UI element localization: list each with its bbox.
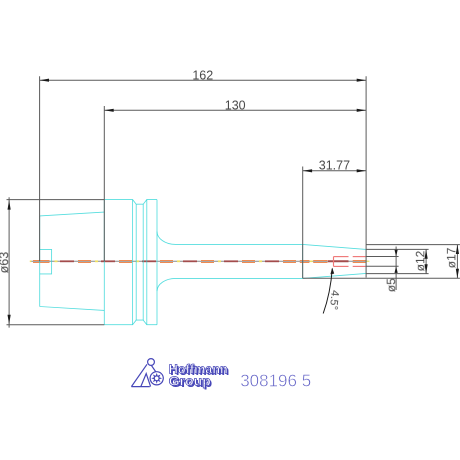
centerline yellow dash xyxy=(310,260,313,262)
centerline base xyxy=(30,260,368,262)
dimension 31.77 text xyxy=(319,158,350,172)
svg-text:ø12: ø12 xyxy=(413,250,427,271)
centerline orange double segment 3 xyxy=(313,261,327,263)
hidden bore bottom line xyxy=(334,265,366,267)
centerline orange double segment 4 xyxy=(353,261,366,263)
angle 4.5 deg text xyxy=(327,289,341,310)
part shaft bottom edge xyxy=(176,277,303,279)
part groove edge line right xyxy=(142,204,144,320)
part groove rim edge left xyxy=(132,200,134,325)
logo text Group xyxy=(169,373,211,388)
logo text Group shadow xyxy=(170,375,212,390)
part flange left face xyxy=(103,200,105,325)
dimension 130 text xyxy=(225,99,246,113)
logo text Hoffmann xyxy=(169,361,228,376)
diameter 63 extension lines xyxy=(7,200,105,325)
svg-text:31.77: 31.77 xyxy=(319,158,350,172)
part flange right face xyxy=(156,200,158,325)
logo gear hub xyxy=(155,377,159,381)
svg-text:ø17: ø17 xyxy=(444,247,458,268)
part flange top edge with groove xyxy=(104,200,157,205)
part cone top edge xyxy=(303,244,367,249)
svg-text:308196 5: 308196 5 xyxy=(240,370,311,390)
dimension 162 text xyxy=(192,68,213,82)
extension line d17 bottom xyxy=(303,277,460,279)
extension line flange face xyxy=(103,106,105,261)
diameter 17 text xyxy=(444,247,458,268)
centerline maroon dash xyxy=(328,260,349,262)
svg-text:162: 162 xyxy=(192,68,213,82)
angle leader 4.5 deg xyxy=(323,268,334,314)
centerline yellow end dash xyxy=(366,260,369,262)
hidden bore end line xyxy=(333,257,335,267)
diameter 17 dimension line xyxy=(456,245,459,279)
diameter 5 text xyxy=(384,278,398,292)
part HSK taper top edge xyxy=(40,212,105,216)
extension line d12 top xyxy=(366,248,429,250)
svg-text:ø63: ø63 xyxy=(0,252,11,274)
part flange bottom edge with groove xyxy=(104,320,157,325)
extension line tip face xyxy=(365,76,367,277)
part HSK taper bottom edge xyxy=(40,307,105,311)
extension line d12 bottom xyxy=(366,273,429,275)
part fillet bottom xyxy=(157,278,176,291)
diameter 12 dimension line xyxy=(425,249,428,273)
extension line left (HSK face) xyxy=(39,76,41,261)
diameter 63 dimension line xyxy=(8,197,11,327)
svg-text:4.5°: 4.5° xyxy=(327,289,341,310)
diameter 63 text xyxy=(0,252,11,274)
logo figure leg xyxy=(141,374,151,387)
right side extension lines for diameters xyxy=(366,244,460,246)
svg-text:ø5: ø5 xyxy=(384,278,398,292)
logo gear ring xyxy=(150,372,163,385)
hidden bore top line xyxy=(334,256,366,258)
centerline yellow start dash xyxy=(30,260,32,262)
part number 308196 5 xyxy=(240,370,311,390)
centerline orange double segment 2 xyxy=(300,261,310,263)
extension line nose start xyxy=(302,167,304,279)
part fillet top xyxy=(157,232,176,245)
part shaft end edge xyxy=(302,244,304,278)
diameter 12 text xyxy=(413,250,427,271)
part tip face xyxy=(365,249,367,273)
extension line d5 top xyxy=(366,256,399,258)
part groove rim edge right xyxy=(146,200,148,325)
centerline dashes xyxy=(55,261,297,263)
logo figure body xyxy=(131,364,156,386)
part HSK left face xyxy=(39,216,41,307)
svg-text:130: 130 xyxy=(225,99,246,113)
part shaft top edge xyxy=(176,243,303,245)
dimension 31.77 line xyxy=(303,169,366,172)
part HSK bore notch xyxy=(40,249,52,274)
diameter 5 dimension line xyxy=(395,247,398,291)
logo text Hoffmann shadow xyxy=(170,363,229,378)
extension line d5 bottom xyxy=(366,265,399,267)
dimension 130 line xyxy=(104,109,366,112)
logo figure head xyxy=(148,359,155,366)
dimension 162 line xyxy=(40,79,367,82)
part cone bottom edge xyxy=(303,273,367,278)
logo gear cog xyxy=(151,373,162,384)
part groove edge line left xyxy=(135,204,137,320)
centerline orange double segment 1 xyxy=(33,261,50,263)
svg-text:Group: Group xyxy=(169,373,211,388)
